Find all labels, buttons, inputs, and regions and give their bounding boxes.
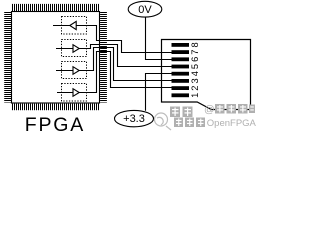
J1 pad 6 — [172, 57, 190, 61]
svg-text:4: 4 — [190, 71, 200, 76]
wire net 0V (supply to pin 6) — [146, 17, 173, 59]
FPGA pins top edge — [12, 4, 99, 11]
input buffer U2 (points left) — [70, 21, 76, 29]
J1 pad 7 — [172, 50, 190, 54]
output buffer U5 (points right) — [73, 89, 79, 97]
SD card connector J1 outline — [162, 40, 251, 110]
J1 pad 4 — [172, 72, 190, 76]
J1 pad 1 — [172, 93, 190, 97]
svg-text:0V: 0V — [138, 4, 152, 16]
svg-text:3: 3 — [190, 78, 200, 83]
watermark text line 1 — [170, 104, 255, 118]
svg-text:FPGA: FPGA — [25, 114, 85, 133]
wire net W2 (buffer U3 to pin 5) — [56, 45, 172, 67]
svg-text:+3.3: +3.3 — [123, 113, 145, 125]
J1 pad 2 — [172, 86, 190, 90]
wire net W1 (buffer U2 to pin 7) — [53, 26, 172, 53]
J1 pad 8 — [172, 43, 190, 47]
wire net +3.3 (supply to pin 4) — [146, 74, 173, 111]
J1 pad 5 — [172, 65, 190, 69]
wire net W3 (buffer U4 to pin 3) — [56, 48, 172, 81]
output buffer U3 (points right) — [73, 45, 79, 53]
J1 pad 3 — [172, 79, 190, 83]
svg-text:@: @ — [204, 104, 215, 116]
svg-text:8: 8 — [190, 42, 200, 47]
svg-text:: OpenFPGA: : OpenFPGA — [202, 118, 257, 129]
FPGA U1 body — [12, 12, 100, 104]
output buffer U4 (points right) — [73, 67, 79, 75]
svg-text:7: 7 — [190, 50, 200, 55]
IO cell box 3 (dashed) — [62, 62, 87, 79]
supply node 0V — [128, 1, 162, 17]
watermark logo — [155, 113, 172, 130]
FPGA pins left edge — [4, 12, 11, 103]
svg-text:6: 6 — [190, 57, 200, 62]
svg-text:5: 5 — [190, 64, 200, 69]
FPGA pins right edge — [100, 12, 107, 103]
svg-text:2: 2 — [190, 86, 200, 91]
IO cell box 1 (dashed) — [62, 17, 87, 35]
svg-text:1: 1 — [190, 93, 200, 98]
IO cell box 2 (dashed) — [62, 40, 87, 57]
watermark text line 2 — [174, 118, 257, 130]
supply node +3.3 — [115, 110, 154, 126]
IO cell box 4 (dashed) — [62, 84, 87, 102]
wire stubs through J1 edge to pads — [160, 53, 172, 88]
wire net W4 (buffer U5 to pin 2) — [57, 52, 172, 93]
FPGA pins bottom edge — [12, 104, 99, 111]
